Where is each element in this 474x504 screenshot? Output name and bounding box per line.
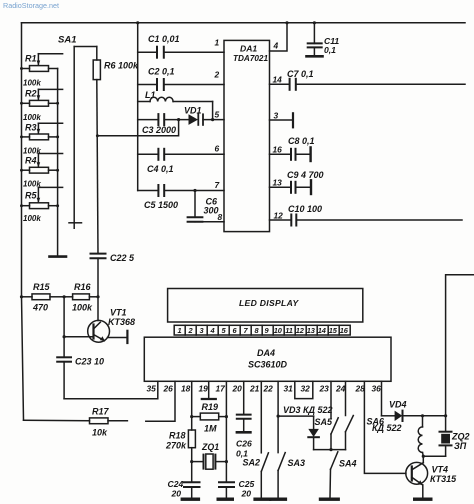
resistor R3 (preset pot) <box>20 123 63 140</box>
display pin strip cells 1-16 <box>174 325 350 335</box>
svg-text:R5: R5 <box>25 191 37 201</box>
svg-text:5: 5 <box>222 326 227 335</box>
svg-text:10: 10 <box>274 326 283 335</box>
svg-text:5: 5 <box>215 110 220 120</box>
svg-text:DA4: DA4 <box>257 348 275 358</box>
svg-text:26: 26 <box>163 384 174 394</box>
svg-text:20: 20 <box>232 384 243 394</box>
svg-text:1: 1 <box>178 326 182 335</box>
svg-text:32: 32 <box>301 384 311 394</box>
svg-text:C10 100: C10 100 <box>288 204 322 214</box>
svg-text:16: 16 <box>273 145 283 155</box>
wire pin 36 <box>381 381 383 416</box>
svg-text:22: 22 <box>263 384 274 394</box>
resistor R5 (preset pot) <box>20 187 63 208</box>
svg-text:R16: R16 <box>74 282 92 292</box>
svg-text:SA2: SA2 <box>243 458 261 468</box>
wire R6 down / varicap node <box>97 80 98 254</box>
svg-text:VD3 КД 522: VD3 КД 522 <box>283 405 333 415</box>
svg-text:28: 28 <box>355 384 366 394</box>
svg-text:270k: 270k <box>165 441 187 451</box>
svg-text:470: 470 <box>32 303 48 313</box>
svg-text:0,1: 0,1 <box>324 45 336 55</box>
wire pin 28 to VT4 base <box>364 381 406 473</box>
svg-text:100k: 100k <box>23 79 41 88</box>
svg-text:VT1: VT1 <box>110 308 127 318</box>
ground SA2 <box>253 498 271 501</box>
wire pin 18 <box>191 381 193 430</box>
svg-text:C22 5: C22 5 <box>110 253 135 263</box>
svg-text:100k: 100k <box>23 214 41 223</box>
svg-text:R1: R1 <box>25 54 37 64</box>
wire right edge feed <box>446 275 474 416</box>
svg-text:7: 7 <box>244 326 249 335</box>
svg-text:LED DISPLAY: LED DISPLAY <box>239 298 299 308</box>
capacitor C1 <box>138 47 224 58</box>
capacitor C5 <box>138 185 224 196</box>
svg-text:12: 12 <box>274 211 284 221</box>
svg-text:300: 300 <box>204 206 219 216</box>
capacitor C22 <box>91 254 106 297</box>
svg-text:DA1: DA1 <box>240 44 257 54</box>
capacitor C26 pin 20 <box>237 381 251 432</box>
pin 4 <box>270 23 288 51</box>
wire varicap tuning branch <box>97 120 178 136</box>
resistor R2 (preset pot) <box>20 89 63 106</box>
svg-text:C1 0,01: C1 0,01 <box>148 34 180 44</box>
svg-text:21: 21 <box>249 384 260 394</box>
svg-text:3: 3 <box>200 326 205 335</box>
svg-text:C26: C26 <box>236 439 252 449</box>
svg-text:C3 2000: C3 2000 <box>142 125 176 135</box>
ground C25 <box>217 498 235 501</box>
svg-text:R18: R18 <box>169 431 186 441</box>
resistor R17 <box>24 418 128 424</box>
crystal ZQ1 <box>191 448 193 482</box>
svg-text:14: 14 <box>318 326 326 335</box>
svg-text:35: 35 <box>147 384 157 394</box>
svg-text:1M: 1M <box>204 424 217 434</box>
svg-text:SA1: SA1 <box>58 35 76 46</box>
ground SA3 <box>269 498 287 501</box>
svg-text:14: 14 <box>273 75 283 85</box>
inductor L2 relay coil <box>418 416 423 456</box>
svg-text:11: 11 <box>285 326 293 335</box>
svg-text:SC3610D: SC3610D <box>248 360 288 370</box>
svg-text:17: 17 <box>216 384 226 394</box>
pins 31/32 shorted box <box>295 381 313 398</box>
svg-text:КТ315: КТ315 <box>430 474 457 484</box>
svg-text:C4 0,1: C4 0,1 <box>147 164 174 174</box>
svg-text:SA4: SA4 <box>339 459 357 469</box>
capacitor C25 <box>219 482 234 497</box>
ground C26 <box>237 431 251 434</box>
resistor R15 <box>20 295 23 298</box>
resistor R6 <box>96 47 98 61</box>
svg-text:KT368: KT368 <box>108 317 135 327</box>
svg-text:VT4: VT4 <box>432 465 449 475</box>
IC DA4 SC3610D <box>144 337 391 381</box>
svg-text:R4: R4 <box>25 156 37 166</box>
resistor R16 <box>63 295 66 298</box>
svg-text:C24: C24 <box>168 479 184 489</box>
wire left supply rail <box>22 23 24 421</box>
switch pin 24 <box>346 381 354 449</box>
svg-text:C8 0,1: C8 0,1 <box>288 136 315 146</box>
svg-text:4: 4 <box>210 326 215 335</box>
svg-text:16: 16 <box>340 326 349 335</box>
svg-text:19: 19 <box>199 384 209 394</box>
svg-text:7: 7 <box>215 180 220 190</box>
DA4 bottom pin numbers <box>147 384 382 394</box>
svg-text:TDA7021: TDA7021 <box>233 54 268 63</box>
wire top supply rail <box>22 22 466 24</box>
svg-text:1: 1 <box>215 38 220 48</box>
svg-text:R15: R15 <box>33 282 51 292</box>
capacitor C4 <box>138 149 224 160</box>
resistor R19 <box>192 413 227 420</box>
wire input column rail <box>137 23 139 191</box>
ground VT4 <box>413 498 433 501</box>
wire C23 to DA4 pin 35 <box>64 381 158 398</box>
svg-text:6: 6 <box>233 326 238 335</box>
ground SA4 <box>319 498 340 501</box>
wire pin 19 open <box>202 381 216 399</box>
svg-text:SA5: SA5 <box>315 417 334 427</box>
svg-text:20: 20 <box>241 489 252 499</box>
svg-text:VD4: VD4 <box>389 400 407 410</box>
svg-text:8: 8 <box>255 326 260 335</box>
svg-text:C7 0,1: C7 0,1 <box>287 69 314 79</box>
LED display block <box>168 289 363 323</box>
svg-text:R2: R2 <box>25 89 37 99</box>
capacitor C23 <box>57 297 71 399</box>
svg-text:C9 4 700: C9 4 700 <box>287 170 324 180</box>
svg-text:C2 0,1: C2 0,1 <box>148 67 175 77</box>
capacitor C3 <box>138 114 189 125</box>
svg-text:SA3: SA3 <box>288 458 306 468</box>
wire pin 17 <box>225 381 227 482</box>
svg-text:SA6: SA6 <box>367 417 386 427</box>
svg-text:ЗП: ЗП <box>454 441 467 451</box>
svg-text:3: 3 <box>274 111 279 121</box>
svg-text:R17: R17 <box>92 407 110 417</box>
svg-text:RadioStorage.net: RadioStorage.net <box>3 1 59 10</box>
svg-text:6: 6 <box>215 144 220 154</box>
svg-text:36: 36 <box>372 384 382 394</box>
wire R17 to pin 26 (with scan break) <box>146 381 175 421</box>
svg-text:C25: C25 <box>239 479 255 489</box>
ground C24 <box>181 498 201 501</box>
svg-text:24: 24 <box>335 384 346 394</box>
svg-text:18: 18 <box>181 384 191 394</box>
capacitor C24 <box>184 482 200 497</box>
resistor R1 (preset pot) <box>20 54 63 72</box>
resistor R18 <box>188 430 195 448</box>
svg-text:R6 100k: R6 100k <box>104 61 139 71</box>
capacitor C6 <box>193 189 196 192</box>
svg-text:C5 1500: C5 1500 <box>144 200 178 210</box>
svg-text:2: 2 <box>214 70 220 80</box>
svg-text:9: 9 <box>265 326 270 335</box>
svg-text:13: 13 <box>273 178 283 188</box>
svg-text:100k: 100k <box>23 113 41 122</box>
svg-text:ZQ1: ZQ1 <box>201 442 219 452</box>
svg-text:ZQ2: ZQ2 <box>451 432 470 442</box>
svg-text:10k: 10k <box>92 428 108 438</box>
ground C11 <box>307 55 323 58</box>
svg-text:100k: 100k <box>72 303 93 313</box>
svg-text:8: 8 <box>218 212 223 222</box>
svg-text:13: 13 <box>307 326 316 335</box>
svg-text:12: 12 <box>296 326 305 335</box>
svg-text:C23 10: C23 10 <box>75 357 104 367</box>
svg-text:15: 15 <box>329 326 338 335</box>
ground bar pots chain <box>50 255 67 258</box>
svg-text:R19: R19 <box>202 402 219 412</box>
capacitor C2 <box>138 79 224 90</box>
svg-text:2: 2 <box>188 326 194 335</box>
svg-text:23: 23 <box>319 384 330 394</box>
resistor R4 (preset pot) <box>20 154 63 174</box>
svg-text:20: 20 <box>171 489 182 499</box>
wire pots common right leg <box>57 69 59 257</box>
svg-text:4: 4 <box>273 41 279 51</box>
op-amp U1 / IC DA1 TDA7021 <box>224 40 270 231</box>
capacitor C11 <box>313 21 316 24</box>
svg-text:31: 31 <box>284 384 294 394</box>
svg-text:R3: R3 <box>25 123 37 133</box>
